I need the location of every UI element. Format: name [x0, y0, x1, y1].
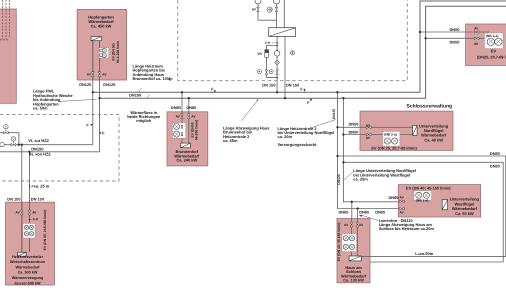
svg-text:DN65: DN65 — [339, 210, 350, 215]
svg-text:(DN25, 20.7-69 l: (DN25, 20.7-69 l — [477, 54, 506, 59]
svg-text:(NB 2-a): (NB 2-a) — [486, 34, 499, 38]
svg-text:EV (DN 65; 216-480 l/min): EV (DN 65; 216-480 l/min) — [43, 210, 47, 251]
svg-text:Schloss bis Heizraum ca.20m: Schloss bis Heizraum ca.20m — [379, 226, 435, 231]
svg-text:DN50: DN50 — [349, 121, 359, 126]
svg-text:Schlossverwaltung: Schlossverwaltung — [407, 103, 453, 109]
svg-text:VL zur HZ2: VL zur HZ2 — [28, 138, 49, 143]
svg-text:Ca. 500 kW: Ca. 500 kW — [18, 271, 38, 275]
svg-text:ca. 20m: ca. 20m — [353, 177, 368, 182]
svg-text:Ca. 40 kW: Ca. 40 kW — [424, 137, 443, 142]
svg-text:F-P: F-P — [265, 41, 271, 45]
svg-text:DN50: DN50 — [450, 40, 460, 45]
svg-text:EV: EV — [491, 49, 497, 54]
svg-text:ca. 20m: ca. 20m — [278, 134, 293, 139]
svg-text:DN125: DN125 — [332, 109, 336, 120]
svg-text:Ca. 450 kW: Ca. 450 kW — [91, 23, 112, 28]
svg-text:RL von HZ2: RL von HZ2 — [29, 152, 52, 157]
svg-text:DN125: DN125 — [103, 82, 116, 87]
svg-text:96-208 l/min): 96-208 l/min) — [194, 120, 198, 141]
svg-text:DN50: DN50 — [490, 151, 500, 156]
svg-text:DN80: DN80 — [171, 105, 181, 110]
svg-text:Ca. 240 kW: Ca. 240 kW — [176, 158, 197, 163]
svg-text:DN65: DN65 — [389, 195, 400, 200]
svg-text:Heizkreisverteiler: Heizkreisverteiler — [12, 255, 44, 259]
svg-text:2: 2 — [292, 51, 294, 55]
svg-text:DN50: DN50 — [490, 164, 500, 169]
svg-text:DN50: DN50 — [450, 27, 460, 32]
svg-text:DN125: DN125 — [79, 82, 92, 87]
svg-text:(NB 2-a): (NB 2-a) — [384, 132, 397, 136]
svg-text:F-P: F-P — [33, 218, 39, 222]
svg-text:Brunnenhof ca. 100m: Brunnenhof ca. 100m — [133, 76, 174, 81]
svg-text:ca. 65m: ca. 65m — [223, 138, 238, 143]
svg-text:Wärmebedarf: Wärmebedarf — [16, 265, 41, 269]
svg-text:ca. 50m: ca. 50m — [33, 106, 48, 111]
svg-text:DN 150: DN 150 — [262, 83, 275, 88]
svg-text:Kessel 600 kW: Kessel 600 kW — [14, 281, 41, 285]
svg-text:EV (DN 40; 45-150 l/min): EV (DN 40; 45-150 l/min) — [406, 185, 451, 190]
svg-text:möglich: möglich — [136, 118, 152, 123]
svg-text:Versorgungsschacht: Versorgungsschacht — [278, 142, 318, 147]
svg-text:L=ca. 25 m: L=ca. 25 m — [29, 184, 50, 189]
svg-text:DN125: DN125 — [337, 174, 341, 185]
svg-text:Wärmeerzeugung: Wärmeerzeugung — [12, 276, 44, 280]
svg-text:Ca. 130 kW: Ca. 130 kW — [343, 278, 364, 283]
svg-text:DN 150: DN 150 — [286, 83, 299, 88]
svg-text:DN150: DN150 — [129, 92, 141, 97]
svg-text:EV (DN 25, 20.7-69 l/min): EV (DN 25, 20.7-69 l/min) — [371, 146, 417, 151]
svg-text:Ca. 50 kW: Ca. 50 kW — [455, 211, 474, 216]
svg-text:DN 150: DN 150 — [31, 197, 44, 202]
svg-text:Wirtschaftszentrum: Wirtschaftszentrum — [10, 260, 46, 264]
svg-text:DN65: DN65 — [359, 210, 370, 215]
svg-text:96.4-208 l/min: 96.4-208 l/min — [116, 41, 120, 63]
svg-text:DN80: DN80 — [186, 105, 196, 110]
svg-text:DN 150: DN 150 — [7, 197, 20, 202]
svg-text:(NB 2-a): (NB 2-a) — [416, 198, 429, 202]
svg-text:DN65: DN65 — [375, 210, 386, 215]
svg-text:L=ca.50m: L=ca.50m — [415, 251, 434, 256]
svg-text:DN50: DN50 — [349, 130, 359, 135]
svg-text:VR: VR — [257, 52, 262, 56]
svg-text:EV (DN 40; 45-150 l/min): EV (DN 40; 45-150 l/min) — [337, 223, 341, 262]
